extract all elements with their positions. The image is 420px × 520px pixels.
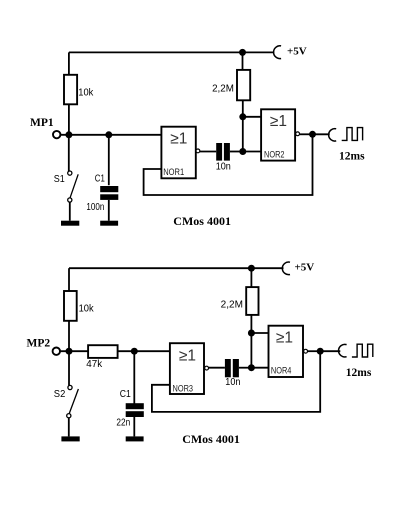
wire S2 lower lead <box>68 418 70 437</box>
wire C1 upper lead <box>108 135 110 185</box>
label 47k <box>86 359 103 370</box>
bubble NOR4 output <box>304 349 308 353</box>
label +5V B <box>295 262 315 274</box>
bubble NOR3 output <box>205 366 209 370</box>
svg-text:≥1: ≥1 <box>179 347 196 364</box>
svg-text:12ms: 12ms <box>339 151 365 163</box>
label MP1 <box>30 117 54 129</box>
label S1 <box>54 174 65 185</box>
terminal MP2 <box>53 348 60 355</box>
wire vertical node link B <box>250 333 252 368</box>
svg-text:100n: 100n <box>86 202 104 213</box>
wire 2.2M bottom lead <box>242 100 244 117</box>
wire 10k top lead <box>68 52 70 74</box>
junction 10n/NOR4 in2 node <box>248 364 255 371</box>
ground C1 <box>100 221 118 226</box>
junction 10n/NOR2 in2 node <box>239 148 246 155</box>
label S2 <box>54 389 66 400</box>
svg-text:12ms: 12ms <box>346 367 372 379</box>
label 2,2M B <box>221 299 243 310</box>
wire S1 lower lead <box>69 202 71 221</box>
op-amp U1 NOR gate NOP1 <box>161 127 195 179</box>
junction 47k/C1 node <box>131 348 138 355</box>
wire C1 upper lead B <box>133 351 135 403</box>
svg-text:MP1: MP1 <box>30 117 54 129</box>
wire NOR3 out to 10n B <box>209 367 225 369</box>
wire node to NOR2 in2 <box>243 151 261 153</box>
wire NOR2 out to node <box>300 133 313 135</box>
capacitor C2 10n <box>216 143 230 161</box>
terminal MP1 <box>53 131 60 138</box>
wire node to output arc B <box>320 350 340 352</box>
+5V connector arc <box>274 46 282 59</box>
label 100n <box>86 202 104 213</box>
op-amp U4 NOR gate NOP4 <box>269 326 304 377</box>
wire node to NOR2 in1 <box>243 116 261 118</box>
svg-text:22n: 22n <box>116 418 130 429</box>
svg-text:CMos 4001: CMos 4001 <box>173 214 231 228</box>
wire node to output arc <box>313 133 330 135</box>
svg-text:MP2: MP2 <box>27 338 51 350</box>
wire S2 upper lead <box>68 351 70 385</box>
label 22n <box>116 418 130 429</box>
bubble NOR1 output <box>196 149 200 153</box>
op-amp U3 NOR gate NOP3 <box>170 343 204 394</box>
svg-text:NOR1: NOR1 <box>163 167 184 177</box>
wire NOR4 out to node <box>308 350 320 352</box>
switch S1 <box>68 171 78 202</box>
svg-text:CMos 4001: CMos 4001 <box>182 432 240 446</box>
svg-text:C1: C1 <box>120 389 131 400</box>
label C1 B <box>120 389 131 400</box>
label MP2 <box>27 338 51 350</box>
label C1 <box>95 174 105 185</box>
resistor R1 10k <box>64 75 77 105</box>
wire 10k top lead B <box>68 268 70 291</box>
svg-text:47k: 47k <box>86 359 103 370</box>
junction output node <box>309 131 316 138</box>
svg-text:10k: 10k <box>78 88 94 99</box>
ground S1 <box>61 221 79 226</box>
label 10k <box>78 88 94 99</box>
capacitor C4 10n <box>225 359 239 377</box>
svg-text:≥1: ≥1 <box>276 330 293 347</box>
svg-text:NOR2: NOR2 <box>264 150 285 160</box>
svg-text:≥1: ≥1 <box>270 113 287 130</box>
wire top +5V rail <box>69 51 274 53</box>
svg-text:2,2M: 2,2M <box>221 299 243 310</box>
label +5V <box>287 45 307 57</box>
wire vertical node link <box>242 117 244 152</box>
resistor R4 47k <box>88 345 118 358</box>
svg-text:≥1: ≥1 <box>170 131 187 148</box>
label 10n B <box>225 377 240 388</box>
junction 2.2M/NOR4 in1 node <box>248 330 255 337</box>
switch S2 <box>67 385 79 417</box>
wire 2.2M top lead B <box>250 268 252 287</box>
wire 10n to node B <box>239 367 252 369</box>
resistor R3 10k <box>64 291 77 321</box>
wire NOR1 out to 10n <box>200 151 216 153</box>
wire 47k to NOR3 <box>118 350 170 352</box>
wire node to NOR4 in2 <box>251 367 268 369</box>
svg-text:C1: C1 <box>95 174 105 185</box>
svg-text:2,2M: 2,2M <box>212 83 234 94</box>
bubble NOR2 output <box>296 132 300 136</box>
junction 2.2M/NOR2 in1 node <box>239 113 246 120</box>
svg-text:10n: 10n <box>225 377 240 388</box>
wire MP2 to 47k <box>60 350 88 352</box>
capacitor C3 22n <box>126 403 144 417</box>
junction rail/2.2M node B <box>248 265 255 272</box>
wire MP1 to NOR1 input <box>61 134 162 136</box>
output connector arc <box>329 129 337 141</box>
svg-text:+5V: +5V <box>295 262 315 274</box>
label CMos 4001 bottom <box>182 432 240 446</box>
ground C1 B <box>126 436 144 441</box>
label 10n <box>216 161 231 172</box>
svg-text:+5V: +5V <box>287 45 307 57</box>
junction C1 tap node <box>105 131 112 138</box>
squarewave symbol <box>342 128 363 141</box>
svg-text:S2: S2 <box>54 389 66 400</box>
svg-text:NOR4: NOR4 <box>271 365 292 375</box>
svg-text:S1: S1 <box>54 174 65 185</box>
squarewave symbol B <box>352 344 373 357</box>
wire C1 lower lead B <box>133 417 135 436</box>
label 12ms <box>339 151 365 163</box>
ground S2 <box>61 436 79 441</box>
wire 10n to node <box>230 151 243 153</box>
label 10k B <box>79 303 95 314</box>
output connector arc B <box>339 344 347 357</box>
junction rail/2.2M node <box>239 49 246 56</box>
wire 10k bottom lead B <box>68 321 70 351</box>
svg-text:NOR3: NOR3 <box>173 384 194 394</box>
junction MP1/10k/S1 node <box>65 131 72 138</box>
resistor R5 2,2M <box>246 287 258 315</box>
wire S1 upper lead <box>68 135 70 171</box>
wire C1 lower lead <box>108 200 110 221</box>
label CMos 4001 top <box>173 214 231 228</box>
+5V connector arc B <box>282 262 290 275</box>
wire 2.2M top lead <box>242 52 244 70</box>
svg-text:10k: 10k <box>79 303 95 314</box>
label 12ms B <box>346 367 372 379</box>
wire node to NOR4 in1 <box>251 332 268 334</box>
label 2,2M <box>212 83 234 94</box>
op-amp U2 NOR gate NOP2 <box>261 109 295 160</box>
wire bottom +5V rail <box>69 267 284 269</box>
wire 10k bottom lead <box>68 104 70 135</box>
junction output node B <box>317 348 324 355</box>
wire 2.2M bottom lead B <box>250 315 252 333</box>
resistor R2 2,2M <box>237 70 250 100</box>
junction MP2/10k/S2 node <box>66 348 73 355</box>
capacitor C1 100n <box>100 186 118 200</box>
wire feedback NOR2 out to NOR1 in2 <box>144 134 313 195</box>
wire feedback NOR4 out to NOR3 in2 <box>152 351 320 412</box>
svg-text:10n: 10n <box>216 161 231 172</box>
